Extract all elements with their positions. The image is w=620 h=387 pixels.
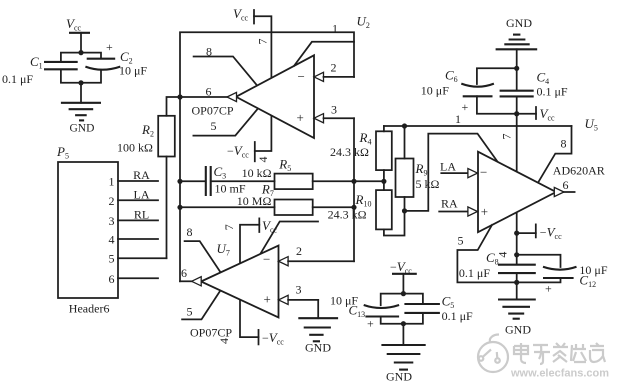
svg-text:24.3 kΩ: 24.3 kΩ	[328, 208, 367, 222]
node (R9 bottom)	[402, 208, 407, 213]
svg-text:+: +	[264, 292, 271, 307]
svg-text:6: 6	[109, 272, 115, 286]
wire (U7 pin 5 stub)	[182, 291, 220, 320]
resistor R4 24.3k	[330, 126, 392, 181]
svg-text:1: 1	[332, 22, 338, 36]
ground (top-right inverted GND)	[496, 16, 538, 69]
svg-text:24.3 kΩ: 24.3 kΩ	[330, 145, 369, 159]
svg-text:RA: RA	[133, 168, 150, 182]
svg-text:OP07CP: OP07CP	[192, 104, 234, 118]
power -Vcc (U2 pin 4)	[227, 143, 270, 163]
wire (decoupling loop)	[61, 53, 101, 83]
svg-text:−: −	[480, 165, 487, 180]
svg-text:Header6: Header6	[69, 302, 110, 316]
svg-text:8: 8	[187, 225, 193, 239]
svg-text:7: 7	[256, 39, 270, 45]
svg-text:RA: RA	[441, 197, 458, 211]
svg-text:5: 5	[458, 234, 464, 248]
pin 6 output arrow U7	[180, 266, 201, 286]
wire (pin1 net of AD620)	[384, 112, 572, 211]
svg-text:3: 3	[331, 103, 337, 117]
svg-text:LA: LA	[134, 187, 150, 201]
node (C8/C12 bottom)	[514, 280, 519, 285]
resistor R7 10M	[180, 182, 354, 216]
svg-text:0.1 μF: 0.1 μF	[442, 309, 473, 323]
wire (U2 feedback top wire and left rail)	[180, 32, 354, 281]
op-amp U7 OP07CP (points left)	[190, 241, 279, 340]
svg-text:+: +	[106, 40, 113, 54]
wire (pin 4 to cap node)	[495, 233, 516, 264]
svg-text:GND: GND	[386, 370, 412, 384]
ground (top-left GND)	[61, 83, 101, 135]
svg-text:10 kΩ: 10 kΩ	[242, 166, 272, 180]
svg-text:10 μF: 10 μF	[119, 64, 147, 78]
svg-text:2: 2	[296, 244, 302, 258]
node RA (input wire)	[439, 197, 477, 217]
wire (U7 pin 1 stub)	[260, 222, 318, 254]
node (U2 output)	[177, 94, 182, 99]
svg-text:www.elecfans.com: www.elecfans.com	[510, 368, 609, 380]
svg-text:RL: RL	[134, 207, 149, 221]
svg-text:1: 1	[455, 112, 461, 126]
svg-text:−: −	[263, 252, 270, 267]
svg-text:5: 5	[211, 119, 217, 133]
node (C3 branch)	[177, 179, 182, 184]
svg-text:3: 3	[109, 214, 115, 228]
pin 3 input U7	[279, 283, 319, 305]
node B (decoupling bottom)	[78, 80, 83, 85]
capacitor C1 0.1uF	[2, 54, 78, 86]
op-amp U2 OP07CP (points left)	[192, 14, 370, 139]
svg-text:OP07CP: OP07CP	[190, 326, 232, 340]
node (mid vertical / C3-R5 wire)	[351, 179, 356, 184]
pin 1 stub U2	[294, 22, 354, 66]
capacitor C6 10uF (polarized)	[421, 68, 517, 115]
svg-text:100 kΩ: 100 kΩ	[117, 141, 153, 155]
svg-text:0.1 μF: 0.1 μF	[2, 72, 33, 86]
svg-text:6: 6	[206, 85, 212, 99]
svg-text:5: 5	[187, 305, 193, 319]
wire (pin 5 stub AD620 to ground)	[457, 225, 516, 282]
svg-text:2: 2	[109, 194, 115, 208]
resistor R5 10k	[242, 157, 354, 190]
node (R4 top / pin1 wire)	[402, 123, 407, 128]
svg-text:+: +	[367, 317, 374, 331]
wire (U2 pin 5 stub)	[193, 109, 257, 136]
resistor R9 5k	[396, 126, 440, 211]
ground (bottom-middle)	[381, 324, 425, 384]
svg-text:10 MΩ: 10 MΩ	[237, 194, 272, 208]
capacitor C4 0.1uF	[500, 68, 568, 113]
svg-text:7: 7	[500, 134, 514, 140]
pin 2 input U7	[279, 244, 355, 266]
power symbol Vcc (top-left)	[66, 16, 90, 53]
ground (U7 pin 3)	[298, 300, 338, 355]
capacitor C13 10uF (polarized)	[330, 294, 403, 331]
resistor R2 100k	[117, 97, 180, 258]
power -Vcc tick (AD620 pin 4)	[517, 224, 562, 241]
node (Vcc rail AD620)	[514, 111, 519, 116]
power -Vcc tick (U7 pin 4)	[217, 330, 284, 347]
svg-text:6: 6	[181, 266, 187, 280]
wire (R5 net to R4/R10 node)	[354, 180, 384, 182]
connector P5 Header6	[56, 144, 167, 316]
capacitor C5 0.1uF	[403, 294, 473, 324]
pin 6 output arrow AD620	[554, 178, 574, 197]
capacitor C3 10mF (series)	[180, 164, 275, 196]
svg-text:−: −	[298, 69, 305, 84]
node (C13/C5 bottom)	[401, 321, 406, 326]
svg-text:+: +	[481, 204, 488, 219]
power Vcc tick (U2 pin 7)	[233, 6, 271, 161]
svg-text:LA: LA	[440, 160, 456, 174]
node LA (input wire)	[440, 160, 478, 178]
svg-text:10 μF: 10 μF	[421, 84, 449, 98]
node (C6/C4 top)	[514, 66, 519, 71]
power -Vcc (bottom-middle)	[390, 259, 417, 294]
svg-text:0.1 μF: 0.1 μF	[459, 266, 490, 280]
svg-text:+: +	[545, 282, 552, 296]
instrumentation amp U5 AD620AR	[478, 116, 605, 232]
node (R7 branch)	[177, 205, 182, 210]
watermark logo circle	[478, 335, 508, 373]
svg-text:3: 3	[296, 283, 302, 297]
svg-text:2: 2	[331, 61, 337, 75]
capacitor C12 10uF (polarized)	[517, 255, 608, 296]
svg-text:8: 8	[206, 45, 212, 59]
wire (pin7/pin4 vertical through AD620)	[500, 114, 517, 233]
wire (U7 pin 8 stub)	[185, 225, 221, 272]
svg-text:8: 8	[561, 137, 567, 151]
svg-text:5: 5	[109, 252, 115, 266]
svg-text:4: 4	[109, 233, 115, 247]
node (C13/C5 top)	[401, 291, 406, 296]
node (R4/R10 junction)	[381, 179, 386, 184]
wire (pin 8 stub AD620)	[538, 126, 572, 183]
svg-text:GND: GND	[305, 341, 331, 355]
watermark text (Chinese glyph imitation)	[514, 343, 605, 364]
svg-text:6: 6	[563, 178, 569, 192]
node (mid vertical / R7 wire)	[351, 205, 356, 210]
pin 6 output arrow U2	[180, 85, 237, 102]
svg-text:1: 1	[109, 175, 115, 189]
resistor R10 24.3k	[328, 181, 405, 235]
capacitor C2 10uF (polarized)	[85, 40, 147, 78]
wire (U2 pin 8 stub)	[194, 45, 258, 86]
svg-text:+: +	[462, 100, 469, 114]
svg-text:0.1 μF: 0.1 μF	[537, 85, 568, 99]
svg-text:+: +	[297, 110, 304, 125]
node (-Vcc junction)	[514, 231, 519, 236]
svg-text:GND: GND	[506, 16, 532, 30]
power Vcc tick (AD620 pin 7)	[517, 106, 555, 123]
capacitor C8 0.1uF	[459, 250, 536, 282]
node A (Vcc decoupling top)	[78, 50, 83, 55]
wire (mid vertical net: U2 pin3 to U7 pin2)	[353, 118, 355, 261]
svg-text:7: 7	[222, 224, 236, 230]
svg-text:AD620AR: AD620AR	[553, 164, 605, 178]
svg-text:GND: GND	[505, 323, 531, 337]
svg-text:GND: GND	[70, 123, 95, 135]
pin 2 input U2	[314, 61, 354, 82]
ground (below AD620)	[498, 282, 536, 336]
node (C8/C12 top)	[514, 252, 519, 257]
pin 3 input U2	[314, 103, 354, 123]
power Vcc tick (U7 pin 7)	[222, 218, 278, 337]
svg-text:4: 4	[256, 157, 270, 163]
